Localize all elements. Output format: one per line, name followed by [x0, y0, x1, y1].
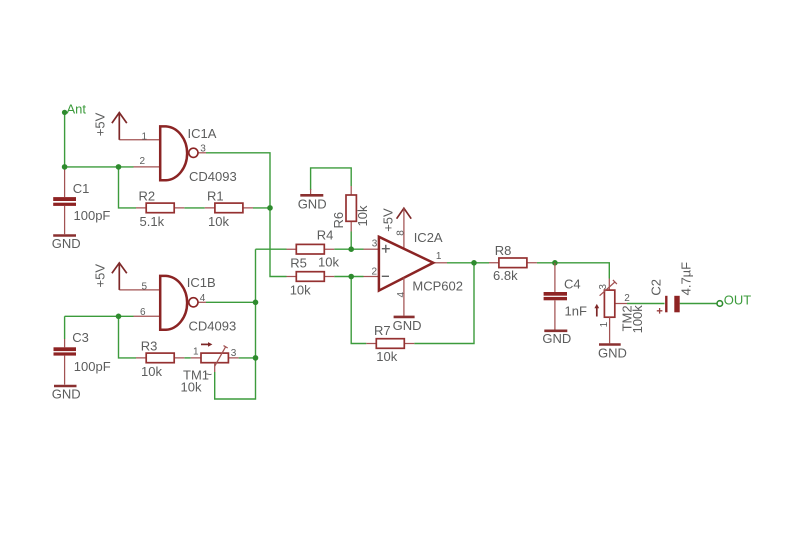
svg-text:+5V: +5V [93, 264, 108, 288]
svg-text:+5V: +5V [380, 208, 395, 232]
svg-text:4.7µF: 4.7µF [678, 262, 693, 296]
wire TM2 wiper to C2 [615, 303, 627, 305]
ground (C3) [52, 386, 81, 402]
svg-text:1: 1 [193, 347, 199, 358]
resistor R7 [366, 323, 414, 364]
svg-text:R7: R7 [374, 323, 391, 338]
svg-text:GND: GND [298, 196, 327, 211]
svg-text:CD4093: CD4093 [189, 319, 237, 334]
wire net B to R4 [256, 248, 287, 250]
svg-text:6.8k: 6.8k [493, 268, 518, 283]
svg-text:MCP602: MCP602 [412, 278, 463, 293]
wire R6 bottom net [350, 232, 352, 250]
svg-text:R2: R2 [139, 188, 156, 203]
node Ant [62, 101, 87, 116]
wire TM1 pin3 net [239, 357, 256, 359]
wire pin6 net [65, 315, 134, 317]
resistor R8 [489, 243, 537, 283]
svg-text:IC2A: IC2A [414, 230, 443, 245]
svg-text:GND: GND [52, 387, 81, 402]
wire C2 to OUT [680, 303, 718, 305]
svg-text:10k: 10k [290, 282, 311, 297]
svg-text:4: 4 [200, 293, 206, 304]
wire R7 to output [414, 263, 474, 344]
svg-text:IC1B: IC1B [187, 275, 216, 290]
wire output net to R8 [447, 262, 489, 264]
svg-text:10k: 10k [141, 364, 162, 379]
junction node (TM1 pin3/net B) [253, 355, 259, 361]
svg-text:100pF: 100pF [74, 359, 111, 374]
svg-text:1: 1 [142, 131, 148, 142]
wire TM2 top red stub [608, 279, 610, 291]
wire +5V to pin1 IC1A [119, 139, 160, 141]
NAND gate IC1B [160, 275, 236, 334]
ground (C4) [542, 331, 571, 346]
junction node (R5/pin2/feedback) [348, 274, 354, 280]
svg-text:2: 2 [372, 267, 378, 278]
wire R5 to op-amp pin2 [334, 276, 363, 278]
svg-text:GND: GND [393, 318, 422, 333]
wire pin2 red stub [134, 166, 161, 168]
op-amp IC2A [379, 230, 463, 293]
svg-text:Ant: Ant [67, 101, 87, 116]
svg-text:1: 1 [599, 321, 610, 327]
svg-text:GND: GND [52, 236, 81, 251]
resistor R4 [287, 228, 340, 270]
wire net B vertical with TM1 wiper return [215, 249, 256, 399]
resistor R1 [205, 188, 253, 229]
svg-text:OUT: OUT [724, 292, 752, 307]
trimmer TM1 [181, 342, 239, 394]
power +5V (IC1A) [93, 112, 127, 139]
svg-text:5.1k: 5.1k [140, 214, 165, 229]
svg-text:6: 6 [140, 307, 146, 318]
wire R3-TM1 link [184, 357, 191, 359]
svg-text:R4: R4 [317, 228, 334, 243]
svg-text:1nF: 1nF [565, 304, 587, 319]
wire R1 to node [253, 207, 270, 209]
svg-text:GND: GND [598, 345, 627, 360]
svg-text:10k: 10k [318, 255, 339, 270]
svg-text:3: 3 [200, 143, 206, 154]
power +5V (IC1B) [93, 263, 127, 290]
svg-text:8: 8 [396, 230, 407, 236]
junction node (pin2/R2) [116, 164, 122, 170]
svg-text:5: 5 [142, 281, 148, 292]
trimmer TM2 [594, 280, 644, 343]
svg-text:IC1A: IC1A [188, 126, 217, 141]
svg-text:3: 3 [598, 284, 609, 290]
NAND gate IC1A [160, 126, 237, 184]
svg-text:100pF: 100pF [74, 208, 111, 223]
power +5V (IC2A pin 8) [380, 208, 411, 249]
wire R8 to TM2 corner [537, 263, 609, 279]
capacitor C4 [544, 263, 587, 330]
svg-text:2: 2 [624, 293, 630, 304]
wire junction to R3 [119, 316, 137, 358]
capacitor C2 [649, 262, 694, 314]
junction node (R6/pin3) [348, 246, 354, 252]
resistor R6 [331, 186, 370, 232]
svg-text:4: 4 [396, 292, 407, 298]
wire op-amp output stub [433, 262, 447, 264]
svg-text:3: 3 [231, 348, 237, 359]
svg-text:10k: 10k [208, 214, 229, 229]
svg-text:10k: 10k [376, 349, 397, 364]
resistor R3 [136, 339, 184, 380]
junction node (output/feedback) [471, 260, 477, 266]
wire GND to R6 top [311, 168, 352, 190]
svg-text:2: 2 [140, 156, 146, 167]
svg-text:R5: R5 [290, 255, 307, 270]
svg-text:R3: R3 [141, 339, 158, 354]
svg-text:1: 1 [436, 251, 442, 262]
ground (mid near R6) [298, 189, 327, 211]
capacitor C1 [53, 167, 110, 234]
svg-text:R1: R1 [207, 188, 224, 203]
junction node (pin6/R3) [116, 314, 122, 320]
wire R2-R1 link [184, 207, 205, 209]
svg-text:3: 3 [372, 239, 378, 250]
svg-text:C4: C4 [564, 277, 581, 292]
wire IC1B output stub [198, 301, 206, 303]
svg-text:R8: R8 [495, 243, 512, 258]
wire net to IC1A pin2 [65, 166, 134, 168]
junction node (IC1B out/net B) [253, 300, 259, 306]
wire R4 to op-amp pin3 [334, 248, 363, 250]
capacitor C3 [54, 330, 111, 385]
svg-text:C1: C1 [73, 181, 90, 196]
wire junction to R2 [119, 167, 137, 208]
svg-text:C3: C3 [72, 330, 89, 345]
ground (IC2A pin 4) [393, 278, 422, 334]
ground (C1) [52, 236, 81, 252]
resistor R2 [136, 188, 184, 229]
junction node (Ant/C1/pin2) [62, 164, 68, 170]
wire IC1B output net [206, 301, 256, 303]
svg-text:R6: R6 [331, 212, 346, 229]
svg-text:~: ~ [205, 367, 213, 382]
wire Ant vertical [64, 112, 66, 166]
wire IC1A output net down to R5 [206, 153, 287, 277]
wire +5V to pin5 IC1B [119, 289, 160, 291]
svg-text:+5V: +5V [93, 112, 108, 136]
svg-text:10k: 10k [355, 205, 370, 226]
svg-text:CD4093: CD4093 [189, 169, 237, 184]
svg-text:100k: 100k [630, 305, 645, 334]
wire pin6 down to C3 [64, 316, 66, 339]
node OUT [717, 292, 751, 307]
ground (TM2) [598, 345, 627, 361]
svg-text:GND: GND [542, 331, 571, 346]
wire IC1A output stub [198, 152, 206, 154]
svg-text:10k: 10k [181, 379, 202, 394]
wire feedback down to R7 [351, 277, 366, 344]
wire pin6 red stub [134, 315, 161, 317]
junction node (R8/C4/TM2) [552, 260, 558, 266]
svg-text:C2: C2 [649, 279, 664, 296]
junction node (R1/net A) [267, 205, 273, 211]
resistor R5 [287, 255, 335, 297]
